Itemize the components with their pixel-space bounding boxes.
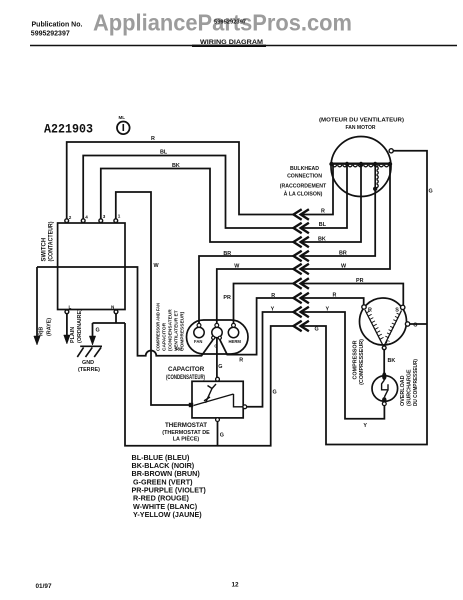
svg-text:R: R [271, 293, 275, 299]
svg-text:BR: BR [339, 251, 347, 257]
svg-text:CONNECTION: CONNECTION [287, 174, 322, 180]
indicator symbol [117, 115, 130, 134]
wire BK from switch terminal 3 [101, 169, 294, 243]
svg-text:FAN MOTOR: FAN MOTOR [346, 125, 376, 131]
svg-text:CAPACITOR: CAPACITOR [162, 322, 168, 351]
compressor [360, 298, 418, 350]
svg-text:5995292397: 5995292397 [31, 31, 70, 38]
start winding vertical [374, 164, 376, 189]
header publication [31, 22, 83, 38]
svg-text:2: 2 [69, 215, 72, 220]
svg-text:(CONDENSATEUR: (CONDENSATEUR [168, 309, 174, 351]
switch terminal numbers [69, 214, 121, 221]
wire compressor C to overload [383, 350, 385, 373]
svg-text:982: 982 [175, 347, 183, 352]
svg-text:CAPACITOR: CAPACITOR [168, 366, 205, 373]
bulkhead connector row 9 (G) [294, 321, 309, 332]
wire Y right of bulkhead to overload bottom [302, 312, 384, 419]
wire BL right of bulkhead to fan motor [302, 164, 347, 228]
svg-text:(TERRE): (TERRE) [78, 367, 100, 373]
svg-text:BL: BL [319, 222, 327, 228]
bulkhead connector row 7 (R) [294, 293, 309, 304]
wire R from switch terminal 2 up and over [67, 142, 294, 219]
svg-text:(CONTACTEUR): (CONTACTEUR) [49, 222, 55, 262]
svg-text:R: R [333, 292, 337, 298]
switch terminal pin 3 [99, 219, 103, 223]
fan motor M1 [319, 118, 404, 197]
ground symbol [77, 346, 102, 357]
motor shell terminal [389, 149, 393, 153]
svg-text:R: R [151, 136, 155, 142]
main winding [332, 162, 391, 164]
switch terminal pin 4 [81, 219, 85, 223]
wire capacitor HERM up to PR row [234, 284, 294, 324]
header rule [30, 45, 457, 47]
bulkhead connector row 8 (Y) [294, 307, 309, 318]
wire crossing switch to capacitor common [37, 267, 213, 356]
wire PLAIN drop [66, 314, 68, 336]
svg-text:R: R [321, 209, 325, 215]
switch SW1 box [58, 223, 125, 310]
svg-text:À LA CLOISON): À LA CLOISON) [284, 191, 323, 198]
wire BK right of bulkhead to fan motor [302, 164, 361, 242]
svg-text:PR: PR [223, 295, 231, 301]
wire R|B drop [36, 267, 38, 337]
switch terminal pin 2 [65, 219, 69, 223]
svg-text:(RAYE): (RAYE) [47, 318, 53, 336]
svg-text:BR: BR [223, 251, 231, 257]
thermostat caption [162, 422, 210, 443]
svg-text:01/97: 01/97 [36, 583, 52, 590]
wire switch to ground branch [93, 314, 126, 337]
svg-text:BULKHEAD: BULKHEAD [290, 166, 319, 172]
arrow PLAIN [64, 335, 70, 344]
svg-text:THERMOSTAT: THERMOSTAT [165, 422, 207, 429]
wire G tee to compressor shell terminal [410, 323, 427, 325]
svg-text:Y: Y [271, 307, 275, 313]
arrow G to ground [89, 336, 95, 345]
wire capacitor C stem to thermostat top [216, 338, 218, 378]
compressor terminals [362, 305, 410, 350]
svg-text:OVERLOAD: OVERLOAD [400, 375, 406, 406]
svg-text:L: L [69, 305, 72, 310]
svg-text:(ORDINAIRE): (ORDINAIRE) [77, 309, 83, 343]
svg-text:(MOTEUR DU VENTILATEUR): (MOTEUR DU VENTILATEUR) [319, 118, 404, 124]
capacitor C1 stadium [187, 320, 249, 354]
wire capacitor C top to W row [217, 269, 294, 323]
svg-text:FAN: FAN [194, 339, 202, 344]
wire thermostat bottom to ground run [217, 421, 219, 445]
svg-text:VENTILATEUR ET: VENTILATEUR ET [174, 310, 180, 351]
wire PR right of bulkhead to compressor S [302, 284, 403, 306]
svg-text:G: G [220, 433, 224, 439]
svg-text:5995292397: 5995292397 [214, 20, 246, 26]
svg-text:COMPRESSEUR): COMPRESSEUR) [180, 311, 186, 351]
svg-text:BK: BK [318, 237, 326, 243]
svg-text:LA PIÈCE): LA PIÈCE) [173, 435, 200, 443]
svg-text:C: C [386, 341, 390, 347]
svg-text:S: S [395, 308, 399, 314]
svg-text:A221903: A221903 [44, 123, 93, 137]
svg-text:R: R [368, 308, 372, 314]
overload [372, 372, 398, 405]
wire W from switch terminal 1 down to thermostat [116, 192, 189, 405]
switch bottom terminal N [114, 310, 118, 314]
wire G right of bulkhead around to fan motor shell [302, 151, 427, 445]
svg-text:DU COMPRESSEUR): DU COMPRESSEUR) [413, 359, 419, 406]
svg-text:G: G [273, 390, 277, 396]
svg-text:R|B: R|B [39, 327, 45, 336]
wire long left vertical to bottom run [125, 323, 294, 446]
svg-text:W: W [154, 263, 160, 269]
svg-text:SWITCH: SWITCH [42, 238, 48, 262]
svg-text:HERM: HERM [229, 339, 242, 344]
svg-text:G: G [218, 364, 222, 370]
svg-text:Y: Y [363, 423, 367, 429]
svg-text:1: 1 [118, 214, 121, 219]
bulkhead connector row 3 (BK) [294, 237, 309, 248]
arrow R|B [34, 336, 40, 345]
wire BR right of bulkhead to fan motor start [302, 188, 375, 256]
svg-text:(THERMOSTAT DE: (THERMOSTAT DE [162, 430, 210, 436]
wire color labels left side [151, 136, 180, 269]
svg-text:COMPRESSOR: COMPRESSOR [353, 340, 359, 379]
bulkhead connector row 5 (W) [294, 264, 309, 275]
svg-text:12: 12 [232, 582, 240, 589]
wire color labels at bulkhead left [223, 251, 275, 313]
svg-text:C: C [214, 343, 217, 348]
svg-text:R: R [239, 358, 243, 364]
svg-text:Y-YELLOW (JAUNE): Y-YELLOW (JAUNE) [133, 510, 202, 519]
svg-text:(COMPRESSEUR): (COMPRESSEUR) [359, 339, 365, 385]
svg-text:PLAIN: PLAIN [70, 327, 76, 343]
svg-text:ML: ML [119, 115, 126, 120]
svg-text:(RACCORDEMENT: (RACCORDEMENT [280, 184, 327, 190]
svg-text:3: 3 [103, 214, 106, 219]
thermostat switch symbol [194, 384, 243, 407]
winding taps [329, 162, 392, 166]
svg-text:G: G [413, 322, 417, 328]
wire R right of bulkhead to fan motor [302, 164, 333, 215]
legend [132, 453, 207, 519]
bulkhead connector row 2 (BL) [294, 223, 309, 234]
svg-text:(SURCHARGE: (SURCHARGE [407, 369, 413, 406]
wire W right of bulkhead to fan motor [302, 164, 390, 269]
svg-text:BK: BK [388, 358, 396, 364]
svg-text:Publication No.: Publication No. [32, 22, 83, 29]
compressor windings [365, 310, 402, 345]
svg-text:BL: BL [160, 150, 168, 156]
svg-text:4: 4 [85, 215, 88, 220]
wire capacitor right tap to R row [220, 298, 294, 355]
wire BL from switch terminal 4 [83, 156, 294, 229]
wire R right of bulkhead to compressor R [302, 298, 364, 305]
thermostat box [189, 377, 247, 421]
bulkhead connector row 6 (PR) [294, 278, 309, 289]
svg-text:Y: Y [326, 306, 330, 312]
wire capacitor FAN up to BR row [199, 256, 294, 323]
bulkhead connector row 1 (R) [294, 209, 309, 220]
switch bottom terminal L [65, 310, 69, 314]
capacitor group label rotated [156, 303, 186, 352]
svg-text:PR: PR [356, 278, 364, 284]
svg-text:G: G [429, 189, 433, 195]
wire thermostat right to Y row [247, 312, 294, 407]
svg-text:BK: BK [172, 163, 180, 169]
switch terminal pin 1 [114, 219, 118, 223]
svg-text:G: G [96, 328, 100, 334]
svg-text:COMPRESSOR AND FAN: COMPRESSOR AND FAN [156, 303, 162, 351]
wire color labels at bulkhead right [315, 189, 433, 333]
bulkhead connector row 4 (BR) [294, 251, 309, 262]
svg-text:(CONDENSATEUR): (CONDENSATEUR) [166, 374, 205, 381]
svg-text:GND: GND [82, 360, 94, 366]
svg-text:G: G [315, 327, 319, 333]
bulkhead connection label [280, 166, 327, 198]
